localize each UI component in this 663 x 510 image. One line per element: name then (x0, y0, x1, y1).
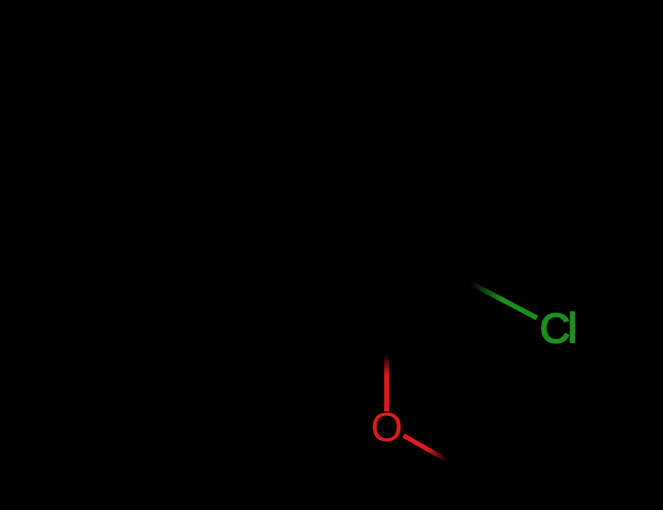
svg-text:Cl: Cl (540, 305, 575, 352)
svg-text:O: O (371, 404, 403, 450)
